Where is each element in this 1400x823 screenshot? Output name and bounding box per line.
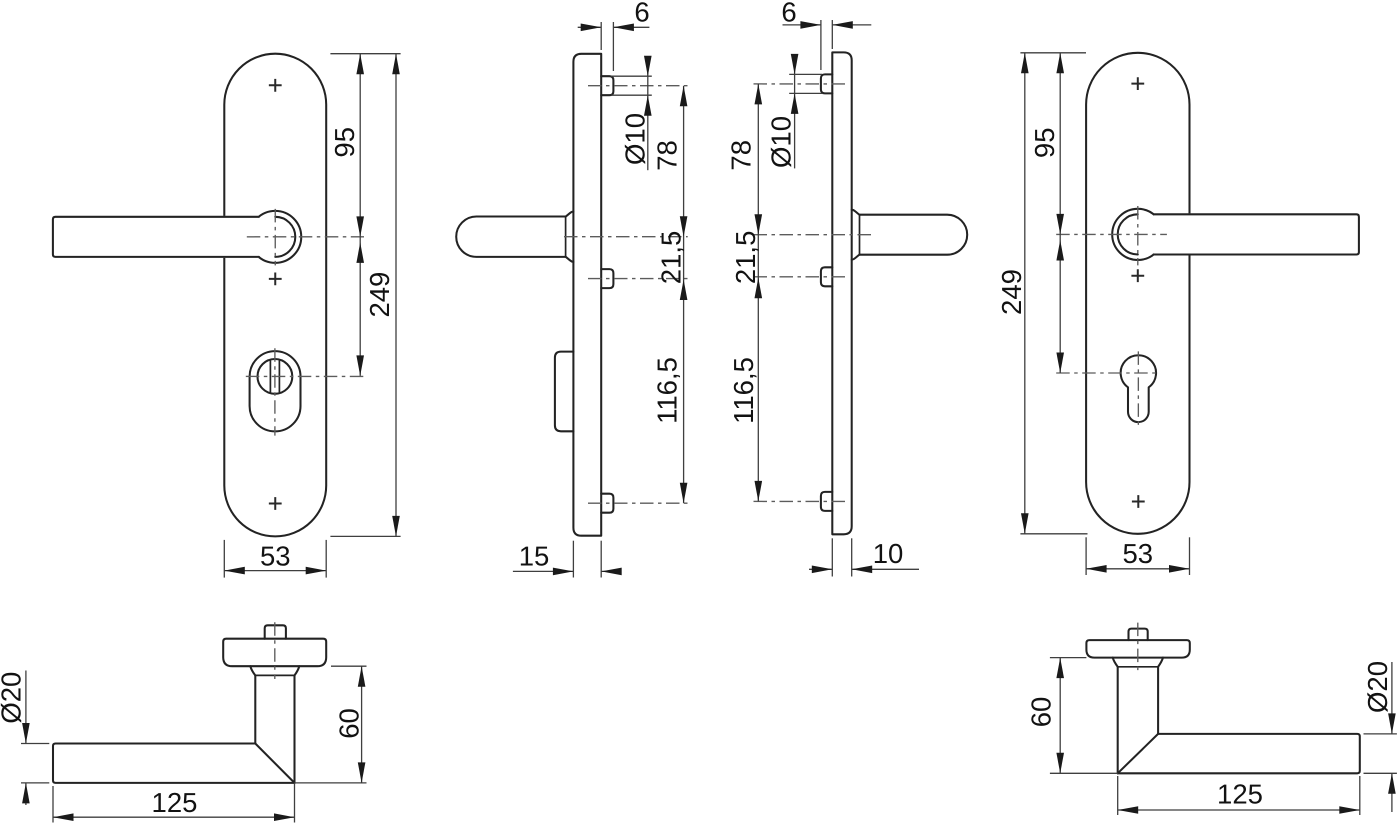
bottom-right: dimension Ø20: [1391, 662, 1393, 734]
svg-text:60: 60: [333, 708, 364, 739]
view 2: bottom screw stub: [601, 494, 613, 513]
bottom-left: dim 60 extensions: [331, 665, 367, 667]
bottom-right: plate edge strip: [1086, 640, 1189, 658]
svg-text:53: 53: [260, 541, 291, 572]
view 4: hub neck cap arc: [1118, 214, 1138, 254]
view 1: dimension line 53: [224, 570, 326, 572]
svg-text:10: 10: [873, 538, 904, 569]
view 4: lever handle bar: [1154, 213, 1358, 255]
bottom-right: grip bar: [1118, 734, 1360, 773]
view 1: dimension line 95 + 72: [359, 54, 361, 376]
view 3: dimension 6: [783, 24, 821, 26]
bottom-left: miter seam diagonal: [255, 744, 294, 783]
view 3: dim 6 extensions: [820, 20, 822, 70]
bottom-left: neck lines: [255, 675, 294, 783]
svg-text:6: 6: [781, 0, 796, 27]
view 3: screw centerlines: [754, 83, 846, 85]
view 4: dimension line 95 + 72: [1059, 53, 1061, 373]
bottom-right: dim 125 extensions: [1117, 776, 1119, 815]
view 4: dimension line 53: [1086, 568, 1189, 570]
view 3: dim 10 extensions: [831, 538, 833, 576]
bottom-left: spindle screw stub: [265, 625, 286, 638]
view 3: grip centerline: [754, 234, 876, 236]
view 2: dimension chain 78 / 21,5 / 116,5: [683, 86, 685, 504]
svg-text:249: 249: [996, 269, 1027, 315]
svg-text:Ø10: Ø10: [766, 116, 797, 168]
bottom-left: dim 125 extensions: [52, 786, 54, 823]
svg-text:125: 125: [1217, 779, 1263, 810]
view 4: dimension line 249: [1024, 53, 1026, 534]
view 1: hub centerline vertical: [274, 209, 276, 266]
svg-text:6: 6: [634, 0, 649, 27]
view 2: plate side profile (15mm): [573, 54, 601, 536]
view 4: dim extension top: [1020, 52, 1086, 54]
view 1: hub neck cap arc: [275, 217, 295, 257]
bottom-left: dimension 60: [361, 666, 363, 783]
view 3: bottom screw stub: [821, 492, 832, 511]
bottom-right: dimension 125: [1118, 809, 1360, 811]
svg-text:Ø20: Ø20: [1362, 661, 1393, 713]
svg-text:95: 95: [1029, 128, 1060, 159]
view 3: dimension 10: [809, 568, 832, 570]
view 1: cylinder centerline horizontal: [246, 375, 364, 377]
view 1: dim extension top: [330, 53, 400, 55]
view 1: lever handle bar (white fill occludes plate edge + circle): [54, 216, 259, 258]
view 3: dim Ø10 extensions: [789, 73, 822, 75]
view 1: backplate outline (stadium 53x249): [224, 54, 326, 537]
bottom-right: dimension 60: [1059, 658, 1061, 774]
svg-text:249: 249: [364, 272, 395, 318]
svg-text:78: 78: [726, 140, 757, 171]
view 2: cylinder protrusion: [555, 352, 574, 432]
view 2: dimension Ø10: [647, 57, 649, 171]
view 4: screw position crosses: [1131, 77, 1144, 90]
view 2: screw centerlines: [588, 85, 688, 87]
view 2: grip centerline: [564, 236, 688, 238]
bottom-right: centerline: [1137, 623, 1139, 673]
view 3: neck rim line: [859, 215, 861, 254]
svg-text:95: 95: [329, 127, 360, 158]
view 2: lever grip cylinder: [456, 217, 565, 257]
view 1: keyway lines: [270, 360, 279, 393]
bottom-left: grip bar: [53, 744, 295, 783]
view 1: hub centerline horizontal: [247, 236, 364, 238]
view 3: dimension chain 78 / 21,5 / 116,5: [757, 84, 759, 502]
svg-text:125: 125: [152, 787, 198, 818]
bottom-right: spindle screw stub: [1129, 629, 1148, 641]
view 4: dim 53 extensions: [1085, 537, 1087, 575]
view 2: dimension 15: [513, 570, 574, 572]
view 4: hub centerline horizontal: [1056, 233, 1167, 235]
svg-text:78: 78: [651, 140, 682, 171]
view 4: keyhole centerline horizontal: [1056, 372, 1160, 374]
bottom-left: dim Ø20 extensions: [21, 743, 49, 745]
view 1: cylinder oval escutcheon: [250, 351, 301, 431]
view 3: plate side profile (10mm): [832, 52, 851, 534]
bottom-left: dimension Ø20: [25, 671, 27, 744]
svg-text:Ø20: Ø20: [0, 672, 27, 724]
bottom-left: flare rim line: [255, 674, 294, 676]
view 3: neck flare: [852, 210, 860, 260]
view 2: dim 6 extensions: [600, 22, 602, 50]
view 4: hub rose circle: [1112, 209, 1163, 260]
bottom-left: centerline: [274, 622, 276, 679]
svg-text:116,5: 116,5: [651, 357, 682, 424]
bottom-left: neck flare: [250, 666, 299, 675]
bottom-right: miter seam diagonal: [1118, 734, 1158, 773]
bottom-right: dim 60 extensions: [1050, 657, 1087, 659]
svg-text:15: 15: [519, 541, 550, 572]
view 2: top screw stub: [601, 76, 613, 95]
svg-text:21,5: 21,5: [656, 231, 687, 285]
view 2: middle screw stub: [601, 269, 613, 288]
view 2: dimension 6: [578, 26, 602, 28]
view 3: middle screw stub: [821, 267, 832, 286]
view 1: dim extension bottom: [330, 535, 400, 537]
view 1: cylinder core circle: [258, 359, 293, 394]
view 2: neck rim line: [565, 217, 567, 257]
bottom-right: dim Ø20 extensions: [1364, 733, 1397, 735]
view 1: hub rose circle: [249, 211, 301, 263]
svg-text:21,5: 21,5: [730, 231, 761, 285]
bottom-right: neck lines: [1118, 667, 1158, 774]
view 4: hub centerline vertical: [1137, 206, 1139, 265]
bottom-left: dimension 125: [53, 816, 295, 818]
svg-text:53: 53: [1123, 538, 1154, 569]
view 2: neck flare: [566, 212, 574, 262]
view 3: dimension Ø10: [794, 55, 796, 169]
svg-text:116,5: 116,5: [728, 357, 759, 424]
view 4: dim extension bottom: [1020, 533, 1087, 535]
view 3: lever grip cylinder: [860, 215, 968, 255]
view 2: dim Ø10 extensions: [611, 75, 652, 77]
bottom-right: flare rim line: [1118, 666, 1158, 668]
view 1: dimension line 249: [395, 54, 397, 537]
view 4: PZ keyhole: [1121, 355, 1156, 422]
view 1: cylinder centerline vertical: [274, 348, 276, 435]
view 1: dim 53 extensions: [223, 540, 225, 578]
svg-text:60: 60: [1026, 697, 1057, 728]
view 4: backplate outline (stadium 53x249): [1086, 53, 1189, 534]
bottom-left: plate edge strip: [223, 639, 326, 667]
view 3: top screw stub: [821, 74, 832, 93]
view 2: dim 15 extensions: [572, 541, 574, 578]
view 4: keyhole centerline vertical: [1137, 351, 1139, 428]
bottom-right: neck flare: [1113, 658, 1163, 667]
svg-text:Ø10: Ø10: [619, 113, 650, 165]
view 1: screw position crosses: [269, 79, 282, 92]
